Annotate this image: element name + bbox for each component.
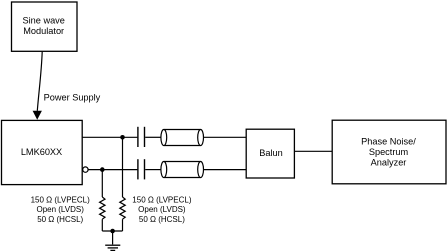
svg-text:Sine wave: Sine wave [23,16,65,26]
junction dot bottom output [100,167,105,172]
wire R1 bottom lead [101,219,103,231]
resistor R1 (bottom-line termination) [100,197,105,219]
wire resistor commons join [102,230,122,232]
wire bottom output (OUT* to C2) [88,169,137,171]
label right termination values [132,195,192,223]
resistor R2 (top-line termination) [120,197,125,219]
svg-text:150 Ω (LVPECL): 150 Ω (LVPECL) [31,195,91,204]
capacitor C2 (bottom AC-coupling) [138,159,145,179]
junction dot ground node [110,229,115,234]
wire power supply (curved) [37,52,42,111]
svg-text:Balun: Balun [259,148,283,158]
wire balun to analyzer [294,150,332,152]
wire bottom termination drop [101,170,103,197]
svg-text:LMK60XX: LMK60XX [21,147,62,157]
wire coax2 to balun [204,169,247,171]
svg-text:Open (LVDS): Open (LVDS) [138,205,186,214]
block balun [246,129,294,178]
block Sine Wave Modulator [12,2,78,51]
block phase noise / spectrum analyzer [332,120,446,184]
ground symbol [105,245,120,250]
svg-text:Analyzer: Analyzer [371,157,407,167]
wire C2 to coax2 [145,169,161,171]
svg-text:Phase Noise/: Phase Noise/ [361,137,416,147]
inversion bubble complementary output [83,167,88,172]
wire to ground [112,231,114,244]
block U1 LMK60XX [2,120,83,184]
svg-text:Open (LVDS): Open (LVDS) [36,205,84,214]
wire top termination drop [122,137,124,197]
svg-text:Modulator: Modulator [23,26,64,36]
wire coax1 to balun [204,136,247,138]
svg-text:Power Supply: Power Supply [44,92,101,102]
capacitor C1 (top AC-coupling) [138,127,145,147]
wire R2 bottom lead [122,219,124,231]
transmission line coax2 (bottom) [161,162,204,178]
wire C1 to coax1 [145,136,161,138]
wire top output (OUT to C1) [82,136,137,138]
svg-text:50 Ω (HCSL): 50 Ω (HCSL) [37,215,83,224]
arrowhead power supply [33,111,42,120]
svg-text:150 Ω (LVPECL): 150 Ω (LVPECL) [132,195,192,204]
svg-text:Spectrum: Spectrum [369,147,409,157]
transmission line coax1 (top) [161,130,204,146]
junction dot top output [120,135,125,140]
label left termination values [31,195,91,223]
svg-text:50 Ω (HCSL): 50 Ω (HCSL) [139,215,185,224]
